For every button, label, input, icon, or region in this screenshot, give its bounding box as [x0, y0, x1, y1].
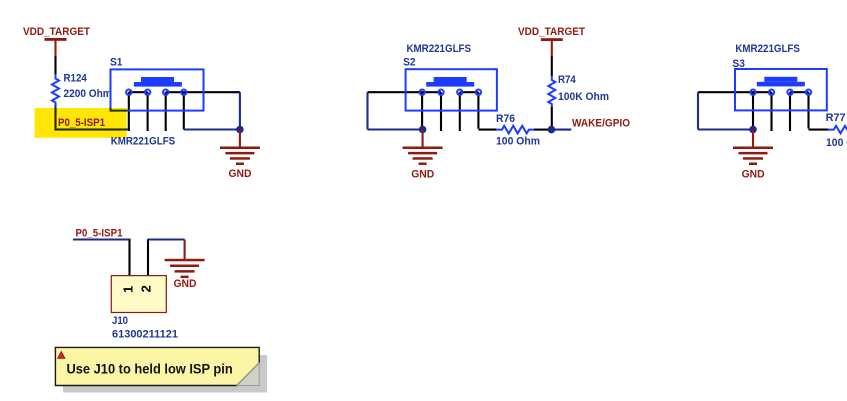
wire S2 bottom horizontal [368, 128, 424, 130]
resistor R77 [828, 126, 847, 134]
svg-text:GND: GND [174, 278, 197, 290]
svg-text:P0_5-ISP1: P0_5-ISP1 [76, 228, 123, 240]
pin 1 wire (J10) [128, 240, 130, 277]
svg-text:GND: GND [411, 169, 434, 181]
note shadow [63, 355, 267, 393]
ground symbol GND (S3) [733, 130, 773, 166]
highlight P0_5-ISP1 (yellow, multiply) [35, 108, 127, 138]
power symbol VDD_TARGET (left) [45, 38, 67, 56]
wire GND to J10 pin 2 [147, 238, 184, 240]
wire to GND (S1 right vertical) [239, 92, 241, 129]
switch S2 body [406, 69, 497, 110]
svg-text:KMR221GLFS: KMR221GLFS [407, 43, 472, 55]
svg-text:S2: S2 [403, 56, 416, 68]
svg-text:VDD_TARGET: VDD_TARGET [23, 26, 90, 38]
switch S3 pins (black) [698, 92, 809, 131]
junction (WAKE node) [548, 126, 556, 134]
svg-text:J10: J10 [112, 315, 128, 327]
note marker triangle [58, 352, 65, 359]
svg-text:GND: GND [229, 168, 252, 180]
resistor R74 [548, 76, 555, 108]
wire S3 left vertical [697, 92, 699, 129]
wire S2 left vertical [366, 92, 368, 129]
wire P0_5-ISP1 to J10 pin 1 [73, 238, 131, 240]
svg-text:2: 2 [139, 285, 154, 292]
wire S3 bottom horizontal [698, 128, 754, 130]
switch S1 pin circles [126, 90, 186, 95]
svg-text:KMR221GLFS: KMR221GLFS [735, 43, 800, 55]
wire P0_5-ISP1 vertical [54, 105, 56, 131]
note fold corner [237, 363, 259, 386]
junction (S2 GND node) [419, 126, 427, 134]
svg-text:100K Ohm: 100K Ohm [558, 91, 609, 103]
power symbol VDD_TARGET (middle) [541, 38, 563, 56]
switch S2 pin circles [419, 90, 481, 95]
wire [54, 56, 56, 75]
wire WAKE/GPIO stub [551, 129, 571, 131]
ground symbol GND (S1) [220, 130, 260, 166]
wire to GND (S1 bottom horizontal) [184, 128, 240, 130]
svg-text:Use J10 to held low ISP pin: Use J10 to held low ISP pin [67, 362, 233, 378]
switch S1 pins (black) [129, 92, 240, 131]
svg-text:2200 Ohm: 2200 Ohm [64, 88, 112, 100]
switch S3 pin circles [750, 90, 811, 95]
ground symbol GND (J10) [165, 240, 205, 279]
wire R74 to node [551, 107, 553, 127]
switch S2 pins (black) [368, 92, 479, 131]
svg-text:100 Ohm: 100 Ohm [826, 137, 847, 149]
pin 2 wire (J10) [147, 240, 149, 277]
junction (S1 GND node) [236, 126, 244, 134]
wire P0_5-ISP1 horizontal [56, 128, 130, 130]
svg-text:R77: R77 [826, 112, 846, 124]
wire [551, 56, 553, 76]
resistor R124 [52, 74, 59, 106]
svg-text:R124: R124 [64, 73, 88, 85]
wire S2 pin4 to R76 [478, 129, 496, 131]
svg-text:S1: S1 [110, 57, 123, 69]
wire S3 pin4 to R77 [809, 129, 829, 131]
switch S3 body [735, 69, 827, 110]
resistor R76 [496, 126, 534, 134]
svg-text:VDD_TARGET: VDD_TARGET [518, 26, 585, 38]
svg-text:GND: GND [742, 168, 765, 180]
note box [55, 347, 259, 385]
ground symbol GND (S2) [403, 130, 443, 166]
svg-text:WAKE/GPIO: WAKE/GPIO [572, 117, 630, 129]
svg-text:1: 1 [120, 286, 135, 293]
connector J10 body [111, 276, 166, 313]
svg-text:61300211121: 61300211121 [112, 329, 178, 341]
wire R76 to node [534, 129, 549, 131]
svg-text:R76: R76 [496, 113, 515, 125]
switch S1 body [111, 69, 204, 110]
junction (S3 GND node) [749, 126, 757, 134]
svg-text:100 Ohm: 100 Ohm [496, 136, 540, 148]
svg-text:R74: R74 [558, 74, 577, 86]
